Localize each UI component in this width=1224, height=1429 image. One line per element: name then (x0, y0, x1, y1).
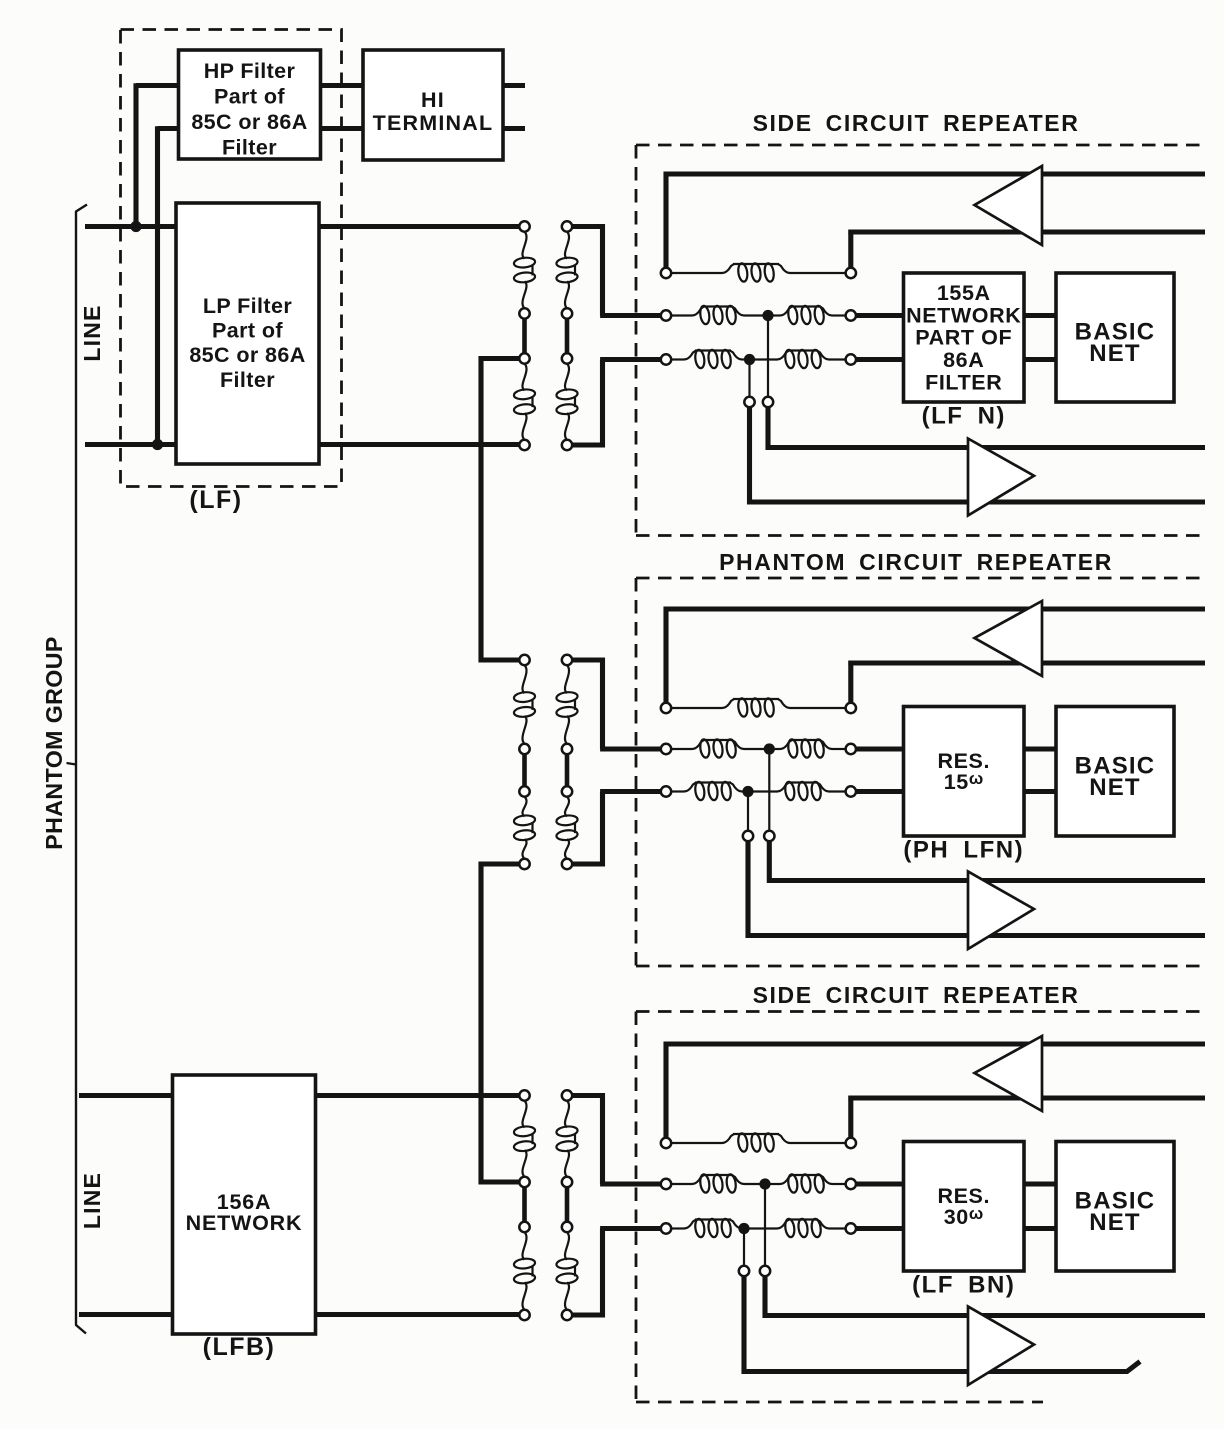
svg-text:85C or 86A: 85C or 86A (189, 343, 305, 367)
svg-text:(PH LFN): (PH LFN) (903, 837, 1024, 864)
svg-text:PART OF: PART OF (915, 326, 1012, 350)
svg-text:SIDE CIRCUIT REPEATER: SIDE CIRCUIT REPEATER (753, 982, 1080, 1008)
svg-text:HP Filter: HP Filter (204, 59, 296, 83)
svg-text:Part of: Part of (212, 319, 283, 343)
svg-text:Filter: Filter (220, 368, 275, 392)
svg-text:PHANTOM CIRCUIT REPEATER: PHANTOM CIRCUIT REPEATER (719, 549, 1113, 575)
svg-text:(LF N): (LF N) (922, 403, 1006, 430)
svg-text:LP Filter: LP Filter (203, 294, 292, 318)
svg-text:NET: NET (1089, 774, 1141, 801)
svg-text:Part of: Part of (214, 85, 285, 109)
svg-text:LINE: LINE (79, 304, 105, 361)
svg-text:NET: NET (1089, 1209, 1141, 1236)
svg-text:HI: HI (421, 88, 445, 112)
svg-text:86A: 86A (943, 348, 984, 372)
svg-text:PHANTOM GROUP: PHANTOM GROUP (41, 636, 67, 849)
svg-text:NETWORK: NETWORK (186, 1211, 303, 1235)
svg-text:85C or 86A: 85C or 86A (191, 110, 307, 134)
svg-text:TERMINAL: TERMINAL (373, 111, 494, 135)
svg-text:FILTER: FILTER (925, 370, 1002, 394)
svg-text:Filter: Filter (222, 136, 277, 160)
svg-text:155A: 155A (937, 281, 991, 305)
svg-text:(LFB): (LFB) (203, 1333, 276, 1361)
svg-text:(LF BN): (LF BN) (912, 1272, 1015, 1299)
svg-text:SIDE CIRCUIT REPEATER: SIDE CIRCUIT REPEATER (753, 110, 1080, 136)
svg-text:NET: NET (1089, 340, 1141, 367)
svg-text:LINE: LINE (79, 1172, 105, 1229)
svg-text:(LF): (LF) (189, 486, 242, 514)
svg-text:NETWORK: NETWORK (906, 303, 1021, 327)
